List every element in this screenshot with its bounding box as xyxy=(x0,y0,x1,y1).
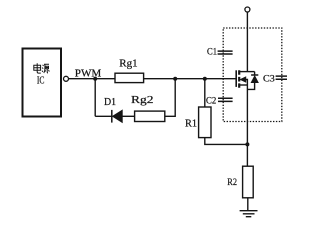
电 xyxy=(34,63,41,73)
resistor Rg1 xyxy=(115,73,144,82)
wire lower branch horizontal left xyxy=(95,115,111,117)
svg-text:R2: R2 xyxy=(227,178,237,188)
svg-text:C3: C3 xyxy=(263,75,275,85)
svg-text:C1: C1 xyxy=(207,48,217,58)
junction PWM branch dot xyxy=(93,77,97,81)
capacitor C1 xyxy=(218,51,233,54)
svg-text:R1: R1 xyxy=(185,119,197,130)
svg-text:C2: C2 xyxy=(206,96,217,106)
ground xyxy=(240,211,258,217)
power IC box xyxy=(23,49,62,117)
junction source/R2 node dot xyxy=(245,142,249,146)
capacitor C3 xyxy=(276,76,287,79)
diode D1 xyxy=(111,110,113,123)
wire down from PWM junction xyxy=(94,79,96,117)
label 电源 (hand-drawn glyphs) xyxy=(34,63,50,73)
resistor Rg2 xyxy=(135,111,165,121)
wire R1 branch down xyxy=(204,79,206,107)
wire drain vertical xyxy=(246,12,248,72)
transistor Q1 channel dashes xyxy=(238,70,240,87)
svg-text:IC: IC xyxy=(37,75,45,86)
svg-text:PWM: PWM xyxy=(75,68,102,79)
wire source vertical down xyxy=(246,85,248,166)
terminal circle top xyxy=(245,7,250,12)
node PWM terminal circle xyxy=(64,76,69,81)
svg-text:D1: D1 xyxy=(104,97,116,108)
junction Rg1/Rg2 node dot xyxy=(173,77,177,81)
wire D1 to Rg2 xyxy=(122,115,135,117)
resistor R2 xyxy=(243,166,254,198)
svg-text:Rg2: Rg2 xyxy=(131,95,154,106)
wire Rg1 to gate node xyxy=(144,78,236,80)
junction R1 branch dot xyxy=(203,77,207,81)
源 xyxy=(42,65,44,72)
body diode of Q1 xyxy=(254,72,256,75)
svg-text:Rg1: Rg1 xyxy=(119,59,137,70)
capacitor C2 xyxy=(218,98,233,101)
transistor Q1 source connection xyxy=(239,84,247,86)
wire PWM horizontal xyxy=(69,78,116,80)
dotted package box xyxy=(223,28,282,122)
resistor R1 xyxy=(199,107,211,138)
transistor Q1 drain connection xyxy=(239,71,254,73)
wire R1 bottom to source node xyxy=(205,138,248,145)
transistor Q1 body arrow xyxy=(245,80,248,86)
transistor Q1 gate bar xyxy=(235,70,237,87)
wire R2 to ground xyxy=(247,198,249,211)
wire Rg2 up to gate node xyxy=(165,79,175,117)
